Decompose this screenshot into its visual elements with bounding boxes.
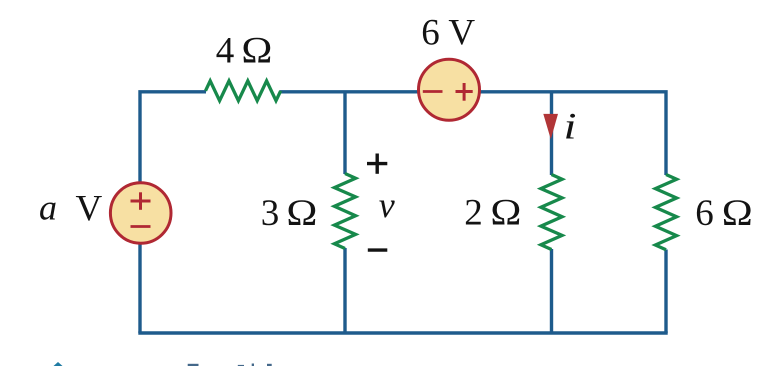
voltage source 6 V (circle body) xyxy=(419,59,480,120)
resistor 6 ohm (vertical zigzag) xyxy=(655,175,676,250)
wire 3-ohm branch bottom xyxy=(343,248,346,333)
svg-text:v: v xyxy=(379,185,395,225)
resistor 2 ohm (vertical zigzag) xyxy=(541,175,562,250)
wire right branch bottom (below 6-ohm) xyxy=(664,250,667,334)
wire left branch bottom (below source a) xyxy=(138,244,141,333)
svg-text:Ω: Ω xyxy=(286,193,317,234)
svg-text:Ω: Ω xyxy=(241,31,272,72)
wire 2-ohm branch top (carries current i) xyxy=(550,92,553,175)
wire top rail right segment (6V source to top-right corner) xyxy=(478,92,666,175)
svg-text:a: a xyxy=(39,188,57,228)
voltage source 6 V plus sign xyxy=(456,83,473,101)
svg-text:Ω: Ω xyxy=(490,193,521,234)
svg-text:6 V: 6 V xyxy=(421,13,475,54)
wire 3-ohm branch top xyxy=(343,92,346,174)
voltage source a V plus sign xyxy=(131,192,151,210)
wire bottom rail xyxy=(138,331,667,334)
wire 2-ohm branch bottom xyxy=(550,249,553,333)
svg-text:Ω: Ω xyxy=(722,193,753,234)
resistor 3 ohm (vertical zigzag) xyxy=(334,174,355,249)
cropped caption letter tops at bottom edge xyxy=(188,364,272,366)
svg-text:i: i xyxy=(564,107,577,148)
svg-text:6: 6 xyxy=(695,193,714,234)
cropped caption icon (teal diamond tip at bottom edge) xyxy=(54,362,63,366)
polarity plus sign for v across 3 ohm xyxy=(367,154,387,174)
svg-text:4: 4 xyxy=(216,31,235,72)
voltage source a V minus sign xyxy=(131,225,151,228)
svg-text:2: 2 xyxy=(464,193,483,234)
svg-text:3: 3 xyxy=(261,193,280,234)
polarity minus sign for v across 3 ohm xyxy=(368,248,388,251)
svg-text:V: V xyxy=(76,189,103,230)
wire top rail left segment (node from source a to 4-ohm) xyxy=(140,92,206,182)
resistor 4 ohm (horizontal zigzag) xyxy=(206,81,281,101)
wire top rail middle segment (4-ohm to 6V source) xyxy=(280,90,420,93)
current arrow i (red arrowhead on 2-ohm branch) xyxy=(543,114,558,139)
voltage source a V (independent source, circle body) xyxy=(110,183,171,244)
voltage source 6 V minus sign xyxy=(423,90,443,93)
